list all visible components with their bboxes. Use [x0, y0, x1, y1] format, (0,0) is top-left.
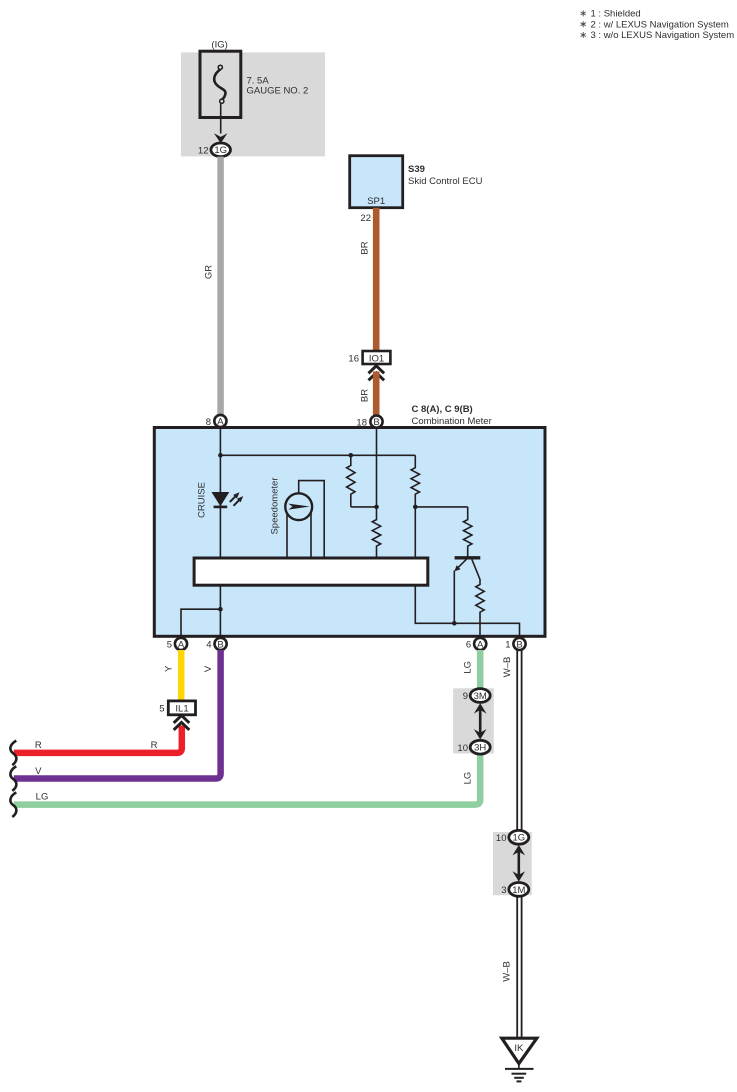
svg-text:A: A: [217, 416, 224, 427]
svg-text:12: 12: [198, 145, 209, 156]
connector 3M pin 9: [463, 689, 490, 703]
junction node on A wire lower: [218, 607, 223, 612]
double arrow between 1G and 1M: [513, 845, 526, 882]
wire V violet: [14, 650, 221, 779]
svg-text:V: V: [203, 665, 214, 672]
label LG upper: [462, 661, 473, 674]
wire LG lower: [14, 753, 480, 805]
ECU S39 box: [350, 156, 403, 208]
svg-text:IK: IK: [514, 1043, 524, 1054]
wire B column inside meter: [376, 429, 378, 507]
connector IO1 pin 16: [348, 351, 390, 364]
svg-text:R: R: [151, 740, 158, 751]
wire R2 bottom to bus bar: [414, 507, 416, 558]
svg-text:Skid Control ECU: Skid Control ECU: [408, 176, 483, 187]
double arrow between 3M and 3H: [474, 703, 487, 739]
label W-B upper: [502, 657, 513, 678]
label R left: [35, 740, 42, 751]
wire GR: [217, 157, 224, 428]
gray background connectors 3M 3H: [453, 688, 494, 753]
svg-text:S39: S39: [408, 164, 425, 175]
svg-text:1: 1: [505, 640, 510, 651]
svg-text:9: 9: [463, 691, 468, 702]
resistor R5 on collector: [472, 559, 484, 636]
svg-text:C 8(A), C 9(B): C 8(A), C 9(B): [412, 404, 473, 415]
pin 18 connector B: [356, 416, 382, 429]
connector 3H pin 10: [457, 740, 490, 754]
svg-text:LG: LG: [36, 792, 49, 803]
label LG left: [36, 792, 49, 803]
junction node at R2 bottom: [413, 505, 418, 510]
label R near IL1: [151, 740, 158, 751]
legend note 1 Shielded: [581, 9, 641, 20]
svg-text:1 : Shielded: 1 : Shielded: [591, 9, 641, 20]
svg-text:3: 3: [501, 885, 506, 896]
svg-text:2 : w/ LEXUS Navigation System: 2 : w/ LEXUS Navigation System: [591, 19, 729, 30]
resistor R1: [347, 455, 355, 507]
resistor R4: [464, 507, 472, 557]
svg-text:SP1: SP1: [367, 196, 385, 207]
svg-text:A: A: [178, 639, 185, 650]
label LG vertical lower: [462, 772, 473, 785]
fuse 7.5A GAUGE NO.2: [200, 51, 241, 117]
combination meter box: [154, 428, 545, 637]
svg-text:8: 8: [206, 417, 211, 428]
svg-text:B: B: [217, 639, 223, 650]
wire Y yellow: [178, 650, 185, 701]
pin 1 connector B: [505, 638, 525, 651]
wire R2 junction to R4: [415, 506, 467, 508]
svg-text:BR: BR: [359, 389, 370, 402]
pin 5 connector A: [167, 638, 187, 651]
svg-text:LG: LG: [462, 661, 473, 674]
speedometer gauge: [285, 481, 324, 558]
label GR: [204, 265, 215, 279]
internal bus bar: [194, 558, 428, 585]
svg-text:10: 10: [496, 833, 507, 844]
label BR: [359, 241, 370, 254]
label V vertical: [203, 665, 214, 672]
svg-text:V: V: [35, 766, 42, 777]
junction node emitter: [452, 621, 457, 626]
wire A column inside meter: [219, 429, 221, 636]
wire BR lower: [373, 372, 380, 416]
junction node at resistor R1 top: [349, 453, 354, 458]
label W-B lower: [502, 961, 513, 982]
label BR lower: [359, 389, 370, 402]
wire R red: [14, 726, 182, 753]
label C 8(A), C 9(B) Combination Meter: [412, 404, 492, 427]
wire R1 bottom to B wire: [351, 506, 377, 508]
svg-text:1G: 1G: [512, 833, 525, 844]
svg-text:10: 10: [457, 743, 468, 754]
svg-text:1M: 1M: [512, 885, 525, 896]
svg-text:W–B: W–B: [502, 961, 513, 982]
svg-text:W–B: W–B: [502, 657, 513, 678]
connector 1G pin 12: [198, 143, 231, 157]
chevron arrow below IL1: [174, 715, 190, 730]
transistor Q1: [454, 558, 480, 624]
junction node on A wire: [218, 453, 223, 458]
svg-text:CRUISE: CRUISE: [197, 482, 208, 518]
svg-text:IL1: IL1: [175, 704, 188, 715]
svg-text:A: A: [477, 639, 484, 650]
svg-text:(IG): (IG): [211, 40, 227, 51]
break symbol LG wire: [10, 792, 16, 817]
label Speedometer: [270, 477, 281, 534]
pin 4 connector B: [206, 638, 226, 651]
chevron arrow below IO1: [369, 366, 385, 381]
svg-text:5: 5: [159, 704, 164, 715]
label V left: [35, 766, 42, 777]
wire from fuse to connector 1G with arrow: [214, 104, 227, 144]
junction block gray background: [181, 52, 325, 156]
wire top horizontal inside meter: [220, 454, 415, 456]
label CRUISE: [197, 482, 208, 518]
legend note 2 w/ LEXUS Navigation System: [581, 19, 729, 30]
svg-text:B: B: [516, 639, 522, 650]
svg-text:5: 5: [167, 640, 172, 651]
svg-text:Y: Y: [164, 665, 175, 672]
svg-text:GR: GR: [204, 265, 215, 279]
connector 1G pin 10: [496, 830, 529, 844]
pin 8 connector A: [206, 415, 227, 428]
svg-text:B: B: [373, 417, 379, 428]
pin 22 label: [360, 213, 371, 224]
gray background connectors 1G 1M: [493, 832, 532, 895]
resistor R2: [411, 455, 419, 507]
wire branch to pin 5A: [181, 609, 220, 636]
pin 6 connector A: [466, 638, 486, 651]
svg-text:22: 22: [360, 213, 371, 224]
label Y: [164, 665, 175, 672]
svg-text:BR: BR: [359, 241, 370, 254]
ground symbol: [505, 1064, 534, 1082]
svg-text:16: 16: [348, 353, 359, 364]
label 7.5A GAUGE NO. 2: [247, 76, 309, 97]
wire W-B upper (double line): [517, 650, 521, 831]
svg-text:Combination Meter: Combination Meter: [412, 416, 492, 427]
svg-text:3H: 3H: [474, 743, 486, 754]
svg-text:3M: 3M: [474, 691, 487, 702]
label S39 Skid Control ECU: [408, 164, 483, 187]
svg-text:LG: LG: [462, 772, 473, 785]
ground IK triangle: [502, 1038, 537, 1063]
break symbol violet wire: [10, 766, 16, 791]
wire W-B lower (double line): [517, 896, 521, 1038]
resistor R3: [372, 507, 380, 558]
svg-text:IO1: IO1: [369, 353, 384, 364]
svg-text:6: 6: [466, 640, 471, 651]
wire BR upper: [373, 208, 380, 351]
svg-text:3 : w/o LEXUS Navigation Syste: 3 : w/o LEXUS Navigation System: [591, 30, 735, 41]
svg-text:18: 18: [356, 417, 367, 428]
connector 1M pin 3: [501, 883, 529, 897]
wire bus bar bottom to pin 1B: [415, 585, 519, 636]
svg-text:GAUGE NO. 2: GAUGE NO. 2: [247, 86, 309, 97]
svg-text:1G: 1G: [214, 145, 227, 156]
wire LG from pin 6A: [477, 650, 484, 689]
junction node on B wire: [374, 505, 379, 510]
svg-text:R: R: [35, 740, 42, 751]
LED CRUISE: [212, 492, 244, 507]
label (IG): [211, 40, 227, 51]
connector IL1 pin 5: [159, 701, 195, 715]
svg-text:Speedometer: Speedometer: [270, 477, 281, 534]
legend note 3 w/o LEXUS Navigation System: [581, 30, 735, 41]
svg-text:4: 4: [206, 640, 211, 651]
break symbol red wire: [10, 741, 16, 766]
